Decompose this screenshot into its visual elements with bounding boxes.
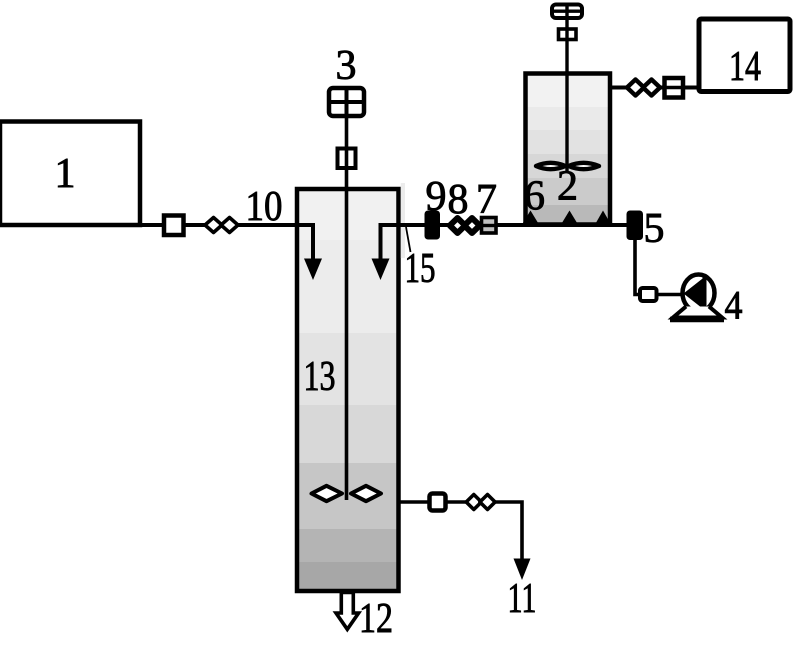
- svg-text:14: 14: [729, 44, 761, 90]
- fitting 7 (striped connector): [479, 218, 500, 234]
- valve 8 (twin diamonds): [450, 218, 480, 233]
- tank 14 (box): [699, 19, 790, 92]
- wire: tank 2 to tank 14: [610, 86, 700, 90]
- svg-text:5: 5: [644, 206, 665, 252]
- svg-text:7: 7: [476, 177, 497, 223]
- column 13 (tall reactor): [297, 189, 399, 591]
- valve (twin diamonds) on feed pipe: [205, 218, 238, 233]
- svg-text:3: 3: [336, 43, 357, 89]
- sparger triangle a (under tank 2): [522, 211, 539, 225]
- pump 4: [670, 275, 724, 320]
- svg-text:12: 12: [359, 596, 393, 642]
- svg-text:8: 8: [448, 177, 469, 223]
- right inlet arrow (into column): [381, 225, 398, 262]
- svg-text:15: 15: [405, 246, 436, 292]
- svg-text:13: 13: [304, 354, 336, 400]
- left inlet arrow (into column): [298, 225, 313, 262]
- wire: valve 5 down to pump: [635, 240, 683, 295]
- sparger triangle b: [561, 211, 578, 225]
- bottom outlet arrow 12 (hollow): [336, 593, 359, 630]
- motor on tank 2: [552, 5, 582, 19]
- svg-text:9: 9: [426, 174, 447, 220]
- svg-text:10: 10: [246, 184, 283, 230]
- wire: main bottom pipe (column to valve 5): [399, 223, 629, 227]
- impeller (tank 2 lens blades): [536, 163, 599, 169]
- coupling below motor 3: [338, 149, 356, 169]
- arrowhead of drain 11: [514, 559, 531, 581]
- coupling on tank 2 shaft: [559, 29, 577, 40]
- valve 9 (black): [425, 211, 441, 240]
- valve 5 (black): [627, 211, 644, 241]
- ghost shading right of column wall: [401, 183, 405, 258]
- fitting on outlet pipe: [430, 494, 446, 511]
- agitator shaft (column): [345, 116, 349, 500]
- leader line for label 15: [406, 227, 411, 252]
- svg-text:2: 2: [557, 164, 578, 210]
- svg-text:4: 4: [725, 283, 743, 328]
- tank 1 (feed box): [0, 122, 140, 226]
- svg-text:6: 6: [524, 174, 545, 220]
- wire: feed pipe tank1 to column: [140, 223, 298, 227]
- wire: column outlet to drain arrow 11: [399, 502, 523, 562]
- fitting before pump 4: [640, 288, 657, 301]
- agitator shaft (tank 2): [565, 18, 568, 172]
- svg-text:1: 1: [55, 151, 76, 197]
- valve (twin diamonds) near tank 14: [627, 80, 660, 96]
- svg-text:11: 11: [508, 576, 537, 622]
- motor 3: [329, 88, 364, 116]
- tank 2 (stirred vessel): [526, 74, 611, 225]
- sparger triangle c: [595, 211, 611, 225]
- valve (twin diamonds) on outlet pipe: [466, 495, 495, 510]
- fitting near tank 14: [665, 78, 684, 98]
- impeller (column stirrer diamonds): [312, 486, 382, 501]
- fitting on feed pipe: [164, 216, 184, 236]
